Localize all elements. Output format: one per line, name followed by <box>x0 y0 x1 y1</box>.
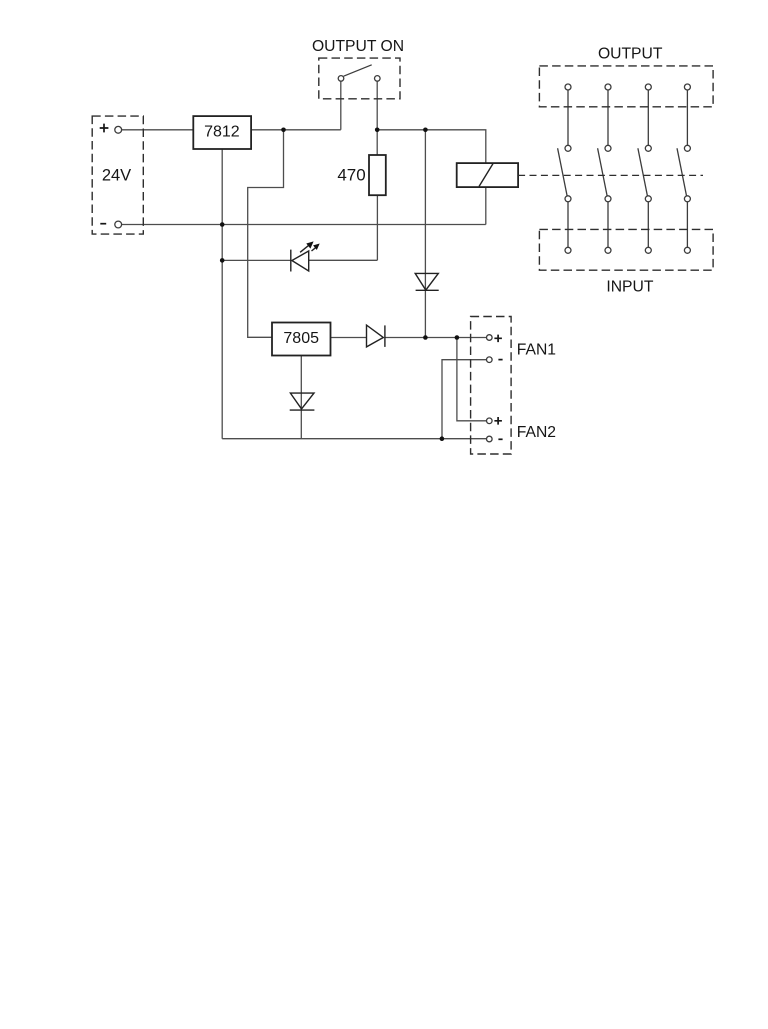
svg-text:OUTPUT: OUTPUT <box>598 45 663 62</box>
svg-text:7812: 7812 <box>204 124 240 141</box>
svg-text:24V: 24V <box>102 167 131 185</box>
svg-text:7805: 7805 <box>283 330 319 347</box>
svg-text:FAN2: FAN2 <box>517 424 556 441</box>
svg-text:OUTPUT ON: OUTPUT ON <box>312 38 404 55</box>
svg-text:FAN1: FAN1 <box>517 342 556 359</box>
svg-text:470: 470 <box>337 166 365 185</box>
svg-text:INPUT: INPUT <box>606 279 653 296</box>
